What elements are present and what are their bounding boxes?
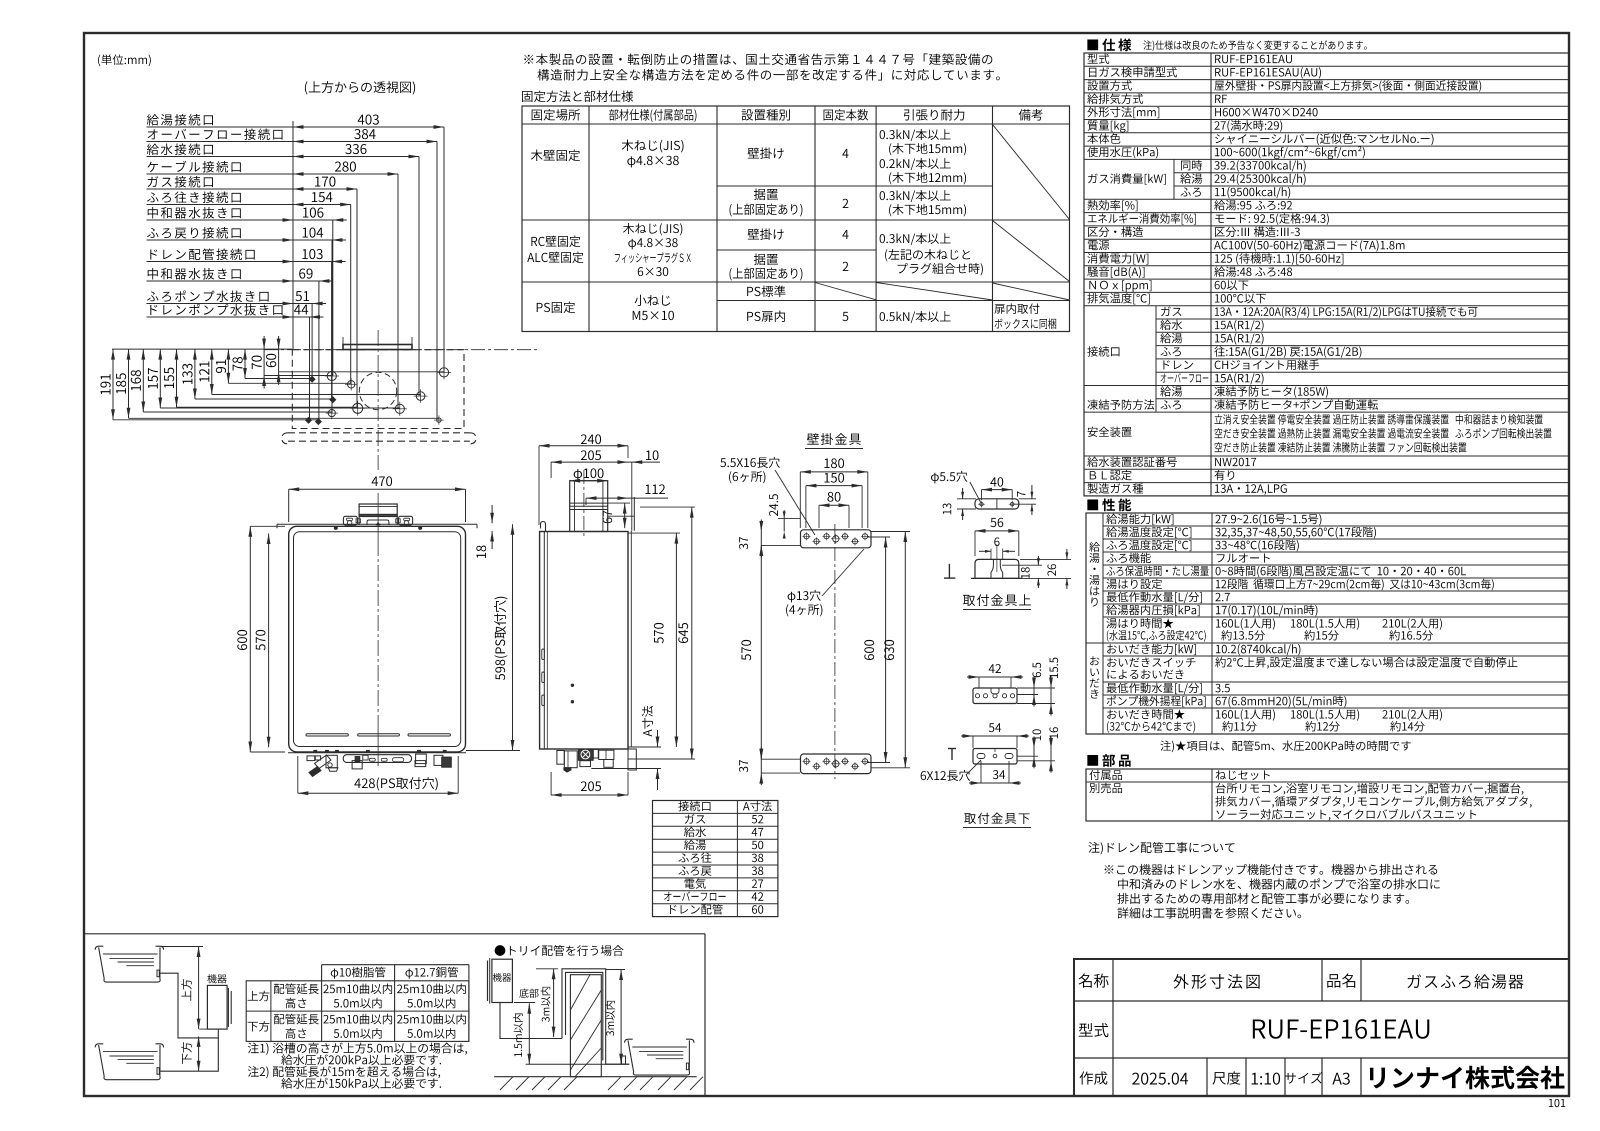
extension to connector 191 <box>113 419 318 421</box>
diagonal: remarks col rows3-4 <box>993 221 1070 282</box>
piping lower tub to appliance <box>161 1038 219 1071</box>
note below perf table <box>1160 740 1410 752</box>
detail: bracket-top profile <box>990 518 1003 527</box>
side louvers <box>542 649 545 660</box>
drop line 44 <box>309 317 311 420</box>
company name <box>1370 1066 1565 1090</box>
drop line 51 <box>311 304 313 380</box>
clip mark upper <box>948 564 950 578</box>
detail: bottom strip with slots <box>989 723 1001 732</box>
extension to connector 157 <box>160 407 399 409</box>
page number <box>1549 1099 1565 1107</box>
torii pipe <box>500 1003 562 1039</box>
side dots <box>571 684 574 687</box>
drop line 104 <box>331 240 333 413</box>
centerline arrowhead <box>376 522 381 526</box>
rear dash-dot line <box>264 349 540 351</box>
dim 570 left <box>741 640 751 660</box>
PS mounting hole dim 598 vertical text <box>494 597 507 680</box>
dim 67 vertical <box>603 511 612 523</box>
dim 600 right <box>864 640 874 660</box>
dim 205 top <box>581 450 601 460</box>
bolt marks on bottom edge <box>314 750 317 752</box>
unit label <box>98 54 151 66</box>
dim 18 profile <box>1021 567 1030 578</box>
connection rows <box>1087 346 1119 356</box>
pipe center line <box>583 470 585 536</box>
drop line 103 <box>331 262 333 400</box>
bottom step bracket <box>628 749 636 770</box>
drain valve diagonal <box>315 755 332 769</box>
section: performance table (SEINOU) <box>1087 498 1131 511</box>
extension to connector 168 <box>143 411 331 413</box>
reheat rows <box>1107 644 1196 655</box>
row: wood wall fixing <box>531 150 580 162</box>
spec table frame <box>1084 53 1569 496</box>
dim 112 <box>645 484 665 494</box>
center slot <box>367 520 389 525</box>
dim 26 profile <box>1047 564 1056 576</box>
side bottom pipes <box>557 751 564 765</box>
section: wall mount bracket rear view <box>807 433 861 445</box>
detail: middle strip with holes <box>989 664 1001 673</box>
connector circles <box>327 371 336 380</box>
wall with hatching <box>570 975 601 1077</box>
sub col dividers <box>1173 159 1175 199</box>
extension to connector 121 <box>212 394 421 396</box>
row: wood wall floor-set <box>754 189 778 200</box>
group labels vertical <box>1089 542 1099 607</box>
fan circle (dashed) <box>359 372 396 409</box>
notes 1 and 2 <box>248 1043 467 1055</box>
ground line <box>494 1076 697 1078</box>
row: PS fixing <box>537 302 575 314</box>
A-dimension table <box>653 801 778 917</box>
appliance label <box>207 974 226 983</box>
dim 180 <box>824 458 844 468</box>
height dim 600 <box>237 630 247 650</box>
vertical reference line <box>292 121 294 350</box>
drop line 280 <box>397 174 399 409</box>
gas consumption rows <box>1088 173 1166 184</box>
depth dimensions (left stack) <box>112 348 292 350</box>
spec table row lines <box>1084 65 1569 67</box>
dim 1.5m <box>528 1003 530 1064</box>
updown dim arrows <box>198 947 200 1030</box>
dim 3m left <box>553 969 555 1037</box>
spec table heading <box>1087 38 1131 51</box>
hook slot bell curve <box>991 559 1003 578</box>
dim 37 top <box>739 537 748 549</box>
duct flange left <box>343 516 357 525</box>
depth dim 240 <box>581 434 601 444</box>
duct flange right <box>399 516 413 525</box>
dim 205 bottom <box>581 781 601 791</box>
table headers <box>532 109 580 121</box>
label: fitting lower <box>964 813 1029 825</box>
dim 37 bottom <box>739 760 748 772</box>
dim 80 <box>827 492 840 502</box>
center line <box>377 493 379 540</box>
height dim 570 <box>256 630 266 650</box>
drain points (small diamonds) <box>309 376 315 382</box>
drop line 336 <box>418 157 420 397</box>
diagonal: PS standard row strength cell <box>876 283 992 301</box>
detail: top fitting strip <box>931 471 967 483</box>
date row <box>1080 1071 1108 1084</box>
row: RC/ALC wall fixing <box>531 236 580 248</box>
exhaust pipe dim phi100 <box>574 468 604 480</box>
exhaust pipe <box>570 481 608 532</box>
unit body outline <box>289 526 466 752</box>
bottom pipe fittings <box>307 756 315 761</box>
dim 150 <box>824 473 844 483</box>
dim 13 <box>943 503 952 514</box>
drain piping note <box>1088 842 1234 854</box>
center line vertical <box>377 330 379 470</box>
drop line 154 <box>350 205 352 385</box>
dim 570 right <box>654 623 664 643</box>
lower bathtub <box>95 1044 103 1048</box>
section divider box <box>84 933 705 935</box>
extension to connector 155 <box>177 406 358 408</box>
diagonal: PS standard row remarks cell <box>993 283 1070 300</box>
extension to connector 133 <box>195 398 333 400</box>
extension to connector 91 <box>228 382 351 384</box>
screw dots top <box>334 526 337 529</box>
diagonal: remarks col rows1-2 <box>993 125 1070 220</box>
slot hole callout <box>720 457 780 468</box>
drop line 403 <box>443 127 445 372</box>
drop line 69 <box>318 281 320 422</box>
top bracket plate <box>801 530 872 548</box>
name cell <box>1079 973 1109 987</box>
back plate double line <box>543 532 545 750</box>
exhaust duct on top <box>359 504 397 516</box>
freeze prevention rows <box>1087 399 1154 409</box>
safety devices row <box>1088 427 1132 437</box>
wall-hung appliance <box>487 961 489 1002</box>
spec rows <box>1088 54 1110 64</box>
extension to connector 78 <box>245 378 312 380</box>
phi13 hole callout <box>788 590 821 602</box>
bathroom floor line <box>526 1063 630 1065</box>
dim 18 right <box>476 545 486 558</box>
connector dimension rows <box>147 114 213 126</box>
extension to connector 60 <box>279 371 444 373</box>
fixing method table title <box>522 91 633 103</box>
piping length table <box>322 964 469 966</box>
perf rows <box>1106 514 1173 525</box>
dim 24.5 <box>769 494 778 516</box>
section: installation notice <box>524 53 992 65</box>
PS hole dim 428 <box>354 777 437 790</box>
product cell <box>1327 973 1355 987</box>
section: parts table (BUHIN) <box>1087 754 1130 767</box>
appliance box <box>207 985 227 1029</box>
dim 34 <box>993 770 1005 779</box>
perf table frame <box>1086 513 1569 734</box>
label: fitting upper <box>963 594 1031 606</box>
bath fill time row <box>1106 618 1173 628</box>
top strip body <box>975 499 1019 509</box>
pipe base line extending right <box>591 768 661 770</box>
dim 645 right <box>678 623 688 643</box>
slot callout 6X12 <box>921 770 970 781</box>
front face dashed strip <box>288 432 470 434</box>
bottom label (TEIBU) <box>519 989 538 998</box>
section: title block <box>1074 959 1569 1096</box>
title: top view <box>305 81 415 94</box>
side body outline <box>540 532 628 750</box>
torii piping diagram <box>495 945 624 956</box>
ground hatching <box>500 1077 513 1090</box>
extension to connector 185 <box>129 417 439 419</box>
width dim 470 <box>372 476 392 486</box>
drop line 106 <box>332 220 334 376</box>
dim 630 right <box>884 640 894 660</box>
model cell <box>1079 1023 1109 1037</box>
drop line 384 <box>436 142 438 421</box>
inner panel <box>294 532 461 747</box>
drop line 170 <box>356 189 358 408</box>
A dimension label <box>642 706 653 737</box>
fixing method table <box>522 106 1070 332</box>
extension to connector 70 <box>264 375 332 377</box>
certification rows <box>1087 457 1177 467</box>
unit top-view outline (dashed) <box>292 350 464 429</box>
hanging hook top left <box>541 522 546 532</box>
dim 10 <box>646 450 658 460</box>
center line <box>834 524 836 779</box>
piping upper tub to appliance <box>161 973 219 1038</box>
upper bathtub <box>95 946 103 950</box>
dim 7 <box>1017 491 1025 496</box>
exhaust vent on rear edge <box>343 345 412 350</box>
dim 3m right <box>620 970 622 1065</box>
louver slots <box>306 734 348 736</box>
bottom base line <box>288 752 466 754</box>
top mounting strip line <box>277 523 477 525</box>
bottom bracket plate <box>801 754 872 774</box>
diagonal: PS standard row count cell <box>815 283 876 300</box>
T mark lower <box>948 748 956 750</box>
right bathtub <box>625 1039 633 1043</box>
